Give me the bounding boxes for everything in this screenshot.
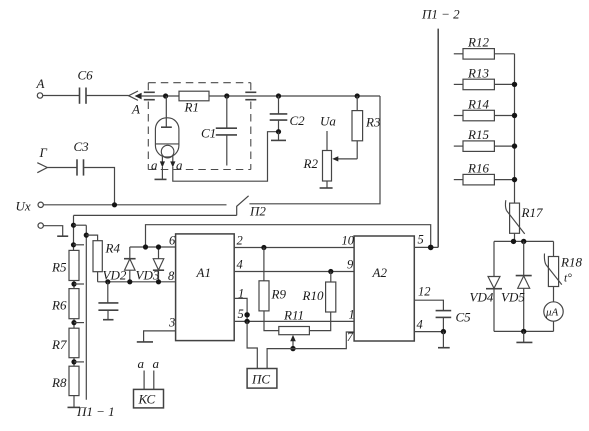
svg-text:4: 4 (237, 258, 243, 272)
resistor R14 (454, 97, 515, 121)
thermistor R17 (505, 200, 543, 234)
wire lower bus line to P2 pivot (74, 214, 237, 216)
shield feedthrough left (144, 92, 155, 99)
svg-text:R5: R5 (51, 260, 67, 275)
wire tube right lead to C2 bottom (173, 132, 279, 182)
svg-text:R18: R18 (560, 255, 582, 270)
node Ux / C3 junction (112, 202, 117, 207)
tube V1 envelope (155, 118, 179, 157)
resistor R10 (302, 272, 336, 331)
resistor R1 (179, 91, 209, 114)
svg-text:9: 9 (347, 258, 354, 272)
node bus tap 1 (71, 223, 76, 228)
node R11 wiper junction (290, 346, 295, 351)
svg-text:R14: R14 (467, 97, 489, 112)
wire feedback line (A1 out to A2 pin5) (146, 225, 431, 248)
svg-text:R13: R13 (467, 66, 489, 81)
wire P1-2 line (421, 7, 460, 248)
svg-text:А: А (131, 102, 140, 117)
svg-text:10: 10 (342, 234, 355, 248)
wire pin4 to C5 bottom (414, 331, 443, 333)
svg-text:ПС: ПС (251, 372, 270, 387)
wire pin4 to A2 pin9 (234, 271, 354, 273)
resistor R3 (352, 96, 381, 141)
svg-text:С1: С1 (201, 126, 216, 141)
resistor R13 (454, 66, 515, 90)
resistor R4 (86, 235, 120, 282)
resistor R12 (454, 35, 515, 60)
svg-text:А: А (36, 76, 45, 91)
wire R17 bottom (514, 233, 516, 241)
node R4 tap on wiper line (84, 233, 89, 238)
node C2 bottom (276, 129, 281, 134)
node tube anode tap (163, 93, 168, 98)
potentiometer R2 (303, 114, 337, 182)
svg-text:С5: С5 (456, 310, 472, 325)
node C5 bottom (441, 329, 446, 334)
svg-text:3: 3 (168, 316, 175, 330)
svg-text:t°: t° (564, 273, 572, 285)
svg-text:R10: R10 (302, 288, 324, 303)
resistor R6 (51, 289, 79, 329)
svg-text:П2: П2 (249, 204, 266, 219)
microammeter (544, 287, 563, 332)
P1-1 end bar (68, 396, 115, 419)
svg-text:7: 7 (347, 330, 354, 344)
node VD3 top (156, 244, 161, 249)
diode VD3 (136, 247, 165, 283)
wire right resistor bus (514, 54, 516, 203)
terminal G (37, 145, 47, 173)
node R6/R7 tap (71, 320, 84, 325)
capacitor C5 (436, 310, 472, 332)
node C2 tap (276, 93, 281, 98)
node rail VD5 (521, 239, 526, 244)
svg-text:8: 8 (168, 269, 175, 283)
wire Ux line (43, 204, 226, 206)
detector ground (516, 331, 532, 342)
node R7/R8 tap (71, 359, 84, 364)
node pin1/pin5 (244, 312, 249, 317)
svg-text:R1: R1 (184, 100, 199, 115)
wire pin8 rail (VD bottom rail) (98, 281, 176, 283)
block KS leads a-a (138, 356, 160, 389)
node bus R13 (512, 82, 517, 87)
svg-text:С6: С6 (78, 68, 94, 83)
tube inner chord (156, 143, 179, 145)
op-amp block A1 (176, 234, 235, 341)
svg-text:R15: R15 (467, 127, 489, 142)
node bus R16 (512, 177, 517, 182)
svg-text:П1 − 1: П1 − 1 (76, 404, 115, 419)
tube cathode circle (161, 145, 174, 158)
wire main anode line (142, 95, 380, 97)
wire pin5 to A2 pin1 (234, 320, 354, 322)
tube lead arrow a right (170, 156, 183, 173)
wire C6 to connector (86, 95, 129, 97)
node R9 tap (261, 245, 266, 250)
svg-text:4: 4 (417, 318, 423, 332)
C5 ground (438, 332, 450, 348)
svg-text:a: a (153, 356, 160, 371)
terminal Ux (16, 199, 44, 214)
svg-text:R7: R7 (51, 337, 67, 352)
node A2 pin5 / feedback (428, 245, 434, 251)
diode VD2 (103, 247, 136, 283)
wire pin12 to C5 (414, 300, 443, 310)
resistor R9 (259, 248, 286, 331)
wire detector bottom rail (494, 330, 554, 332)
svg-text:R4: R4 (105, 241, 121, 256)
svg-text:6: 6 (169, 234, 176, 248)
node bus tap 2 (71, 242, 76, 247)
resistor R8 (51, 366, 79, 395)
svg-text:VD3: VD3 (136, 268, 160, 283)
block PS (247, 369, 277, 389)
wire R3 bottom to R2 wiper (332, 141, 357, 162)
svg-text:R2: R2 (303, 156, 319, 171)
svg-text:R8: R8 (51, 375, 67, 390)
svg-text:VD5: VD5 (501, 290, 525, 305)
R2 ground (320, 181, 333, 188)
aux terminal chassis (43, 226, 68, 237)
svg-text:А1: А1 (196, 265, 211, 280)
svg-text:1: 1 (349, 308, 355, 322)
wire tap1 to P1-1 wiper line (74, 224, 87, 226)
diode VD4 (470, 241, 503, 331)
node bus R14 (512, 113, 517, 118)
wire detector top rail (494, 240, 554, 242)
capacitor C3 (74, 139, 90, 176)
svg-text:2: 2 (237, 234, 243, 248)
terminal A (antenna input) (36, 76, 45, 98)
node C1 tap (224, 93, 229, 98)
connector A (plug-socket) (129, 91, 142, 117)
svg-text:R16: R16 (467, 161, 489, 176)
node pin5 junction (244, 319, 249, 324)
svg-text:Ua: Ua (320, 114, 336, 129)
svg-text:R12: R12 (467, 35, 489, 50)
wire main line right corner down to P2 contact (249, 96, 380, 204)
thermistor R18 (544, 241, 582, 286)
capacitor C2 (270, 96, 305, 132)
contact stub tap 2 (74, 244, 85, 246)
wire pin6 rail (VD top rail) (130, 246, 176, 248)
svg-text:R11: R11 (283, 308, 304, 323)
svg-text:5: 5 (418, 233, 424, 247)
shield box (dashed) (148, 83, 251, 170)
svg-text:R17: R17 (521, 205, 543, 220)
svg-text:VD2: VD2 (103, 268, 127, 283)
node bottom rail VD5 (521, 329, 526, 334)
capacitor C6 (78, 68, 94, 104)
tube anode lead (161, 96, 172, 127)
switch P2 (237, 196, 267, 219)
svg-text:А2: А2 (372, 265, 388, 280)
resistor R16 (454, 161, 515, 185)
resistor R7 (51, 328, 79, 366)
resistor R15 (454, 127, 515, 151)
svg-text:R3: R3 (365, 115, 381, 130)
resistor R5 (51, 250, 79, 288)
svg-text:μА: μА (545, 307, 559, 319)
node feedback at pin6 rail (143, 244, 148, 249)
tube cathode ground (155, 167, 167, 179)
node rail R17 (511, 239, 516, 244)
op-amp block A2 (354, 236, 414, 341)
wire PS right lead to A2 pin7 (267, 332, 354, 369)
svg-text:a: a (138, 356, 145, 371)
capacitor C1 (201, 96, 237, 166)
wire P1-1 wiper line (85, 225, 87, 400)
svg-text:a: a (151, 158, 158, 173)
wire C3 to Ux line (84, 168, 115, 205)
svg-text:С2: С2 (290, 113, 306, 128)
wire A to C6 (43, 95, 80, 97)
diode VD5 (501, 241, 532, 331)
wire A2 pin5 to P1-2 line (414, 246, 438, 248)
C2 chassis bar (271, 132, 286, 141)
node VD2 bottom (127, 279, 132, 284)
potentiometer R11 (279, 308, 310, 335)
wire left bus vertical (73, 215, 75, 250)
node R10 tap (328, 269, 333, 274)
pin 3 wire and ground (137, 331, 176, 342)
wire pin1 down to pin5 node (234, 298, 247, 321)
block KS (134, 389, 164, 408)
svg-text:П1 − 2: П1 − 2 (421, 7, 460, 22)
svg-text:КС: КС (138, 392, 156, 407)
terminal aux (below Ux) (38, 223, 43, 228)
svg-text:a: a (176, 158, 183, 173)
node bus R15 (512, 143, 517, 148)
svg-text:R6: R6 (51, 298, 67, 313)
svg-text:5: 5 (238, 307, 244, 321)
wire G to C3 (47, 167, 77, 169)
node R5/R6 tap (71, 281, 84, 286)
shield feedthrough right (245, 92, 256, 99)
node R3 tap (355, 93, 360, 98)
R11 wiper arrow (290, 335, 296, 349)
svg-text:Г: Г (39, 145, 48, 160)
wire pin2 to A2 pin10 (234, 247, 354, 249)
svg-text:R9: R9 (271, 287, 287, 302)
svg-text:12: 12 (418, 285, 431, 299)
svg-text:С3: С3 (74, 139, 90, 154)
node VD3 bottom (156, 279, 161, 284)
blocking capacitor to ground (98, 282, 118, 320)
node blocking cap tap (105, 279, 110, 284)
svg-text:VD4: VD4 (470, 290, 494, 305)
tube lead arrow a left (151, 156, 165, 173)
svg-text:Ux: Ux (16, 199, 31, 214)
wire PS left lead to pin5 node (247, 321, 257, 368)
